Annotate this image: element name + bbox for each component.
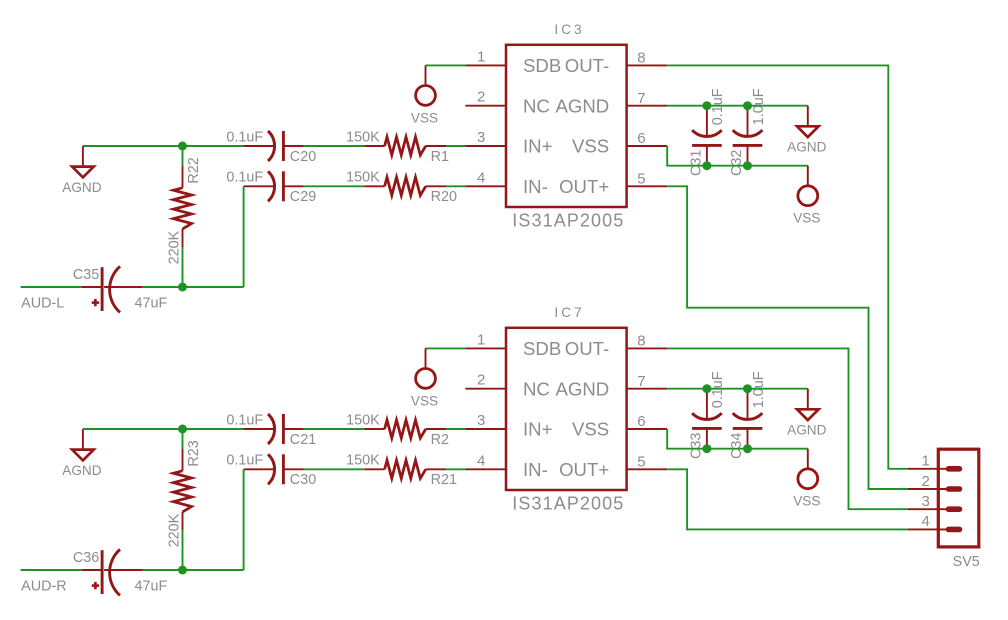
wire — [182, 429, 184, 449]
junction node — [743, 444, 752, 453]
svg-text:150K: 150K — [346, 129, 380, 145]
svg-text:VSS: VSS — [572, 419, 609, 440]
svg-text:VSS: VSS — [411, 393, 438, 408]
supply VSS — [793, 449, 820, 509]
SV5 pin 4 — [908, 513, 960, 530]
svg-text:3: 3 — [477, 129, 485, 146]
wire — [426, 64, 466, 66]
IC7 pin 8 — [627, 333, 668, 350]
svg-text:3: 3 — [921, 493, 929, 510]
svg-text:0.1uF: 0.1uF — [710, 88, 726, 125]
svg-text:IN-: IN- — [523, 459, 548, 480]
IC7 pin 2 — [465, 372, 506, 389]
IC7 pin 1 — [465, 331, 506, 348]
svg-text:AGND: AGND — [62, 463, 101, 478]
svg-text:AGND: AGND — [787, 140, 826, 155]
wire — [182, 530, 184, 570]
IC7 pin 6 — [627, 413, 668, 430]
svg-text:2: 2 — [477, 372, 485, 389]
svg-text:5: 5 — [637, 171, 645, 188]
wire — [446, 428, 465, 430]
op-amp IC3 IS31AP2005 — [506, 22, 627, 230]
wire — [667, 348, 908, 509]
capacitor C30 — [226, 453, 316, 488]
capacitor C21 — [226, 412, 316, 447]
wire — [182, 247, 184, 287]
svg-text:220K: 220K — [167, 513, 183, 547]
IC3 pin 2 — [465, 89, 506, 106]
svg-text:150K: 150K — [346, 170, 380, 186]
svg-text:C35: C35 — [73, 267, 99, 283]
svg-text:0.1uF: 0.1uF — [226, 170, 263, 186]
svg-text:SDB: SDB — [523, 338, 561, 359]
wire — [667, 186, 908, 489]
svg-text:VSS: VSS — [411, 110, 438, 125]
svg-text:4: 4 — [477, 452, 485, 469]
connector SV5 — [938, 449, 980, 570]
svg-text:IC7: IC7 — [554, 305, 584, 320]
svg-text:1.0uF: 1.0uF — [751, 88, 767, 125]
svg-text:VSS: VSS — [572, 136, 609, 157]
capacitor C31 — [689, 88, 727, 176]
wire — [667, 146, 808, 166]
svg-text:1.0uF: 1.0uF — [751, 371, 767, 408]
svg-text:R2: R2 — [431, 432, 449, 448]
wire — [143, 286, 244, 288]
svg-text:0.1uF: 0.1uF — [226, 453, 263, 469]
wire — [667, 105, 808, 107]
IC3 pin 5 — [627, 171, 668, 188]
svg-text:4: 4 — [477, 169, 485, 186]
junction node — [702, 444, 711, 453]
SV5 pin 2 — [908, 473, 960, 490]
svg-text:VSS: VSS — [793, 211, 820, 226]
capacitor C32 — [729, 88, 767, 176]
op-amp IC7 IS31AP2005 — [506, 305, 627, 513]
svg-text:OUT-: OUT- — [565, 55, 609, 76]
svg-text:C29: C29 — [290, 189, 316, 205]
svg-text:C31: C31 — [689, 150, 705, 176]
wire — [243, 186, 245, 287]
svg-text:AGND: AGND — [62, 180, 101, 195]
svg-text:0.1uF: 0.1uF — [710, 371, 726, 408]
svg-text:NC: NC — [523, 95, 550, 116]
svg-text:SDB: SDB — [523, 55, 561, 76]
junction node — [178, 283, 187, 292]
wire — [143, 569, 244, 571]
wire — [446, 145, 465, 147]
IC3 pin 1 — [465, 48, 506, 65]
svg-text:1: 1 — [477, 48, 485, 65]
junction node — [702, 161, 711, 170]
svg-text:IN+: IN+ — [523, 136, 552, 157]
svg-text:0.1uF: 0.1uF — [226, 129, 263, 145]
svg-text:8: 8 — [637, 333, 645, 350]
resistor R20 — [346, 170, 457, 205]
SV5 pin 3 — [908, 493, 960, 510]
IC7 pin 3 — [465, 412, 506, 429]
wire — [243, 469, 245, 570]
resistor R22 — [167, 157, 202, 264]
svg-text:150K: 150K — [346, 412, 380, 428]
IC3 pin 7 — [627, 90, 668, 107]
svg-text:VSS: VSS — [793, 494, 820, 509]
svg-text:NC: NC — [523, 378, 550, 399]
capacitor C29 — [226, 170, 316, 205]
wire — [182, 146, 184, 166]
wire — [83, 145, 244, 147]
svg-text:IN-: IN- — [523, 176, 548, 197]
svg-text:AUD-L: AUD-L — [21, 296, 64, 312]
svg-text:R21: R21 — [431, 472, 457, 488]
junction node — [743, 161, 752, 170]
junction node — [702, 384, 711, 393]
supply VSS — [411, 348, 438, 408]
supply VSS — [793, 166, 820, 226]
wire — [667, 429, 808, 449]
polarized capacitor C35 — [73, 266, 168, 312]
svg-text:6: 6 — [637, 413, 645, 430]
svg-text:8: 8 — [637, 50, 645, 67]
wire — [83, 428, 244, 430]
svg-text:AGND: AGND — [555, 95, 609, 116]
svg-text:1: 1 — [477, 331, 485, 348]
svg-text:AUD-R: AUD-R — [21, 579, 67, 595]
svg-text:OUT-: OUT- — [565, 338, 609, 359]
junction node — [743, 384, 752, 393]
svg-text:5: 5 — [637, 454, 645, 471]
svg-text:C36: C36 — [73, 550, 99, 566]
IC7 pin 5 — [627, 454, 668, 471]
svg-text:C34: C34 — [729, 433, 745, 459]
svg-text:4: 4 — [921, 513, 929, 530]
wire — [667, 388, 808, 390]
junction node — [178, 142, 187, 151]
svg-text:IS31AP2005: IS31AP2005 — [512, 493, 624, 513]
IC7 pin 4 — [465, 452, 506, 469]
ground AGND — [62, 146, 101, 195]
wire — [426, 347, 466, 349]
svg-text:C30: C30 — [290, 472, 316, 488]
ground AGND — [62, 429, 101, 478]
svg-text:C20: C20 — [290, 149, 316, 165]
svg-text:0.1uF: 0.1uF — [226, 412, 263, 428]
IC3 pin 6 — [627, 130, 668, 147]
wire — [21, 286, 82, 288]
wire — [304, 145, 365, 147]
svg-text:IN+: IN+ — [523, 419, 552, 440]
svg-text:IC3: IC3 — [554, 22, 584, 37]
wire — [304, 185, 365, 187]
IC7 pin 7 — [627, 373, 668, 390]
resistor R23 — [167, 440, 202, 547]
svg-text:OUT+: OUT+ — [559, 459, 609, 480]
svg-text:7: 7 — [637, 373, 645, 390]
IC3 pin 3 — [465, 129, 506, 146]
junction node — [702, 101, 711, 110]
svg-text:C32: C32 — [729, 150, 745, 176]
svg-text:7: 7 — [637, 90, 645, 107]
svg-text:47uF: 47uF — [135, 578, 168, 594]
IC3 pin 8 — [627, 50, 668, 67]
svg-text:R23: R23 — [186, 440, 202, 466]
svg-text:AGND: AGND — [555, 378, 609, 399]
svg-text:C33: C33 — [689, 433, 705, 459]
svg-text:IS31AP2005: IS31AP2005 — [512, 210, 624, 230]
polarized capacitor C36 — [73, 549, 168, 595]
resistor R1 — [346, 129, 449, 164]
SV5 pin 1 — [908, 453, 960, 470]
svg-text:1: 1 — [921, 453, 929, 470]
ground AGND — [787, 389, 826, 438]
svg-text:47uF: 47uF — [135, 295, 168, 311]
junction node — [178, 566, 187, 575]
svg-text:220K: 220K — [167, 230, 183, 264]
svg-text:C21: C21 — [290, 432, 316, 448]
svg-text:2: 2 — [921, 473, 929, 490]
svg-text:AGND: AGND — [787, 423, 826, 438]
wire — [304, 428, 365, 430]
svg-text:OUT+: OUT+ — [559, 176, 609, 197]
wire — [446, 468, 465, 470]
capacitor C34 — [729, 371, 767, 459]
svg-text:R1: R1 — [431, 149, 449, 165]
svg-text:SV5: SV5 — [953, 554, 980, 570]
wire — [667, 65, 908, 468]
junction node — [178, 425, 187, 434]
junction node — [743, 101, 752, 110]
IC3 pin 4 — [465, 169, 506, 186]
svg-text:2: 2 — [477, 89, 485, 106]
capacitor C20 — [226, 129, 316, 164]
ground AGND — [787, 106, 826, 155]
wire — [446, 185, 465, 187]
wire — [304, 468, 365, 470]
supply VSS — [411, 65, 438, 125]
resistor R2 — [346, 412, 449, 447]
svg-text:R20: R20 — [431, 189, 457, 205]
wire — [667, 469, 908, 529]
svg-text:R22: R22 — [186, 157, 202, 183]
svg-text:6: 6 — [637, 130, 645, 147]
resistor R21 — [346, 453, 457, 488]
wire — [21, 569, 82, 571]
svg-text:3: 3 — [477, 412, 485, 429]
svg-text:150K: 150K — [346, 453, 380, 469]
capacitor C33 — [689, 371, 727, 459]
